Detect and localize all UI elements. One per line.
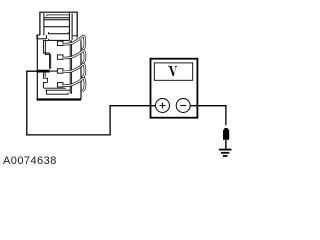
resistor coil loop 3 — [63, 64, 85, 77]
wire splice (thick) at pin 3 — [37, 70, 50, 73]
voltmeter display window — [154, 63, 192, 80]
test lead probe boot — [223, 128, 229, 140]
voltmeter positive terminal — [156, 99, 170, 113]
resistor coil core rails — [70, 40, 71, 93]
connector C1 housing body outline — [37, 35, 81, 100]
connector C1 housing shoulder — [37, 35, 70, 40]
resistor coil loop 4 — [63, 78, 85, 91]
voltmeter negative terminal — [176, 99, 190, 113]
figure label A0074638 — [3, 155, 57, 167]
wire pin3 stub — [50, 70, 58, 72]
connector C1 housing latch tab — [40, 12, 77, 40]
voltmeter V label — [168, 66, 177, 76]
wire from connector to voltmeter positive lead — [27, 71, 156, 135]
voltmeter U1 outer box — [151, 59, 198, 118]
connector C1 pin 3 terminal — [57, 69, 63, 73]
connector C1 inner cavity wall — [43, 41, 70, 95]
resistor coil loop 1 — [63, 36, 85, 50]
wire from negative terminal to ground — [191, 106, 226, 126]
connector C1 pin 2 terminal — [57, 55, 63, 59]
connector C1 pin 4 terminal — [57, 83, 63, 87]
connector C1 pin 1 terminal — [57, 41, 63, 45]
wire below boot — [225, 140, 227, 149]
ground symbol G1 — [219, 150, 232, 156]
resistor coil loop 2 — [63, 51, 85, 64]
